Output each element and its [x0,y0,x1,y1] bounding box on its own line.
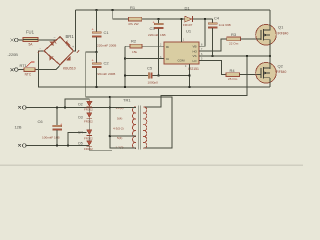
wire C1 chain [96,10,98,32]
pin stubs [199,45,206,47]
svg-text:BR1: BR1 [66,34,75,39]
wire Ct wire [125,58,159,60]
node dot C5 left [124,74,126,76]
capacitor C1 [92,28,117,48]
svg-text:VB: VB [193,45,197,49]
resistor R4 [226,68,257,81]
wire HO to R3 [206,39,227,51]
terminal AC live [11,38,24,42]
wire midpoint to primary [86,52,172,148]
transformer TR1 [113,98,147,150]
svg-text:220mkF 200B: 220mkF 200B [97,44,116,48]
node dot C5 com [188,74,190,76]
wire Rt-Ct link [124,46,126,87]
node dot C3 top [157,18,159,20]
capacitor C5 [125,66,189,85]
svg-text:D4: D4 [78,130,83,134]
node dot D4 link [67,144,69,146]
svg-text:~: ~ [54,36,56,40]
thermistor RT1 [20,62,36,77]
svg-text:220mkF 200B: 220mkF 200B [96,72,115,76]
svg-text:Q1: Q1 [278,25,284,30]
bridge rectifier BR1 [38,34,79,72]
terminal out minus [18,144,89,148]
svg-text:C1: C1 [104,30,110,35]
svg-text:VS: VS [193,54,197,58]
svg-text:FR107: FR107 [183,23,193,27]
wire bridge plus to rail [74,10,76,51]
node dot C4 VS [211,55,213,57]
svg-text:Q2: Q2 [278,64,284,69]
svg-text:C5: C5 [147,66,153,71]
wire chain bottom link [89,149,112,151]
svg-text:U1: U1 [186,29,192,34]
transistor Q1 [256,10,289,56]
wire top +rail [76,9,270,11]
wire fuse to bridge [38,37,60,40]
svg-text:1000p0: 1000p0 [148,81,159,85]
svg-text:R4: R4 [230,68,236,73]
svg-text:R1: R1 [130,5,136,10]
transistor Q2 [256,56,287,87]
capacitor C3 [148,19,166,75]
svg-text:47k 2W: 47k 2W [128,22,139,26]
diode D4 [78,130,93,141]
node dot VS Q [269,55,271,57]
wire VS row [206,55,271,57]
wire VB vertical [204,19,206,46]
svg-text:R3: R3 [231,32,237,37]
node dot C6 bottom [56,144,58,146]
secondary winding right [143,107,147,148]
resistor R3 [227,32,257,46]
svg-text:1-2(3): 1-2(3) [116,146,124,150]
svg-text:RT1: RT1 [20,63,27,68]
svg-text:Ct: Ct [166,57,169,61]
wire D4 left link [68,133,87,146]
svg-text:D1: D1 [185,6,191,11]
node dot rail C1 [95,9,97,11]
primary winding left [132,107,136,148]
svg-text:FR302: FR302 [84,119,93,123]
svg-text:220mkF 16B: 220mkF 16B [148,33,166,37]
wire D2 top link [65,99,89,107]
svg-text:C3: C3 [150,26,156,31]
wire secondary taps [110,97,136,148]
svg-text:FR302: FR302 [84,137,93,141]
terminal out plus [18,106,110,110]
node dot VB branch [204,18,206,20]
svg-text:25 Om: 25 Om [228,77,238,81]
svg-text:12B: 12B [15,125,22,130]
svg-text:IRF840: IRF840 [278,32,289,36]
wire C1 bottom to mid node [96,37,98,52]
svg-text:LO: LO [193,59,198,63]
node dot C2 bus [95,86,97,88]
IC U1 IR2151 [159,18,206,87]
svg-text:COM: COM [178,59,186,63]
node dot center tap [109,135,111,137]
wire VS to primary top [143,56,247,107]
capacitor C4 [208,16,231,57]
terminal AC neutral [11,68,25,72]
fuse FU1 [23,30,38,47]
wire VCC line [142,18,185,20]
diode D5 [78,141,93,151]
svg-text:D5: D5 [78,141,83,145]
capacitor C2 [92,52,116,87]
wire diode chain [88,99,90,150]
node dot C3 com [157,74,159,76]
svg-text:15k: 15k [132,50,137,54]
wire LO to R4 [206,61,227,75]
svg-text:~: ~ [49,68,51,72]
svg-text:FU1: FU1 [26,30,35,35]
node dot COM bus [188,86,190,88]
svg-text:NTC: NTC [25,73,32,77]
svg-text:Rt: Rt [166,45,169,49]
svg-text:TR1: TR1 [123,98,131,103]
svg-text:4-3(5-2): 4-3(5-2) [113,127,124,131]
node dot midpoint [95,51,97,53]
wire R1 feed [113,10,129,19]
node dot rail R1 [112,9,114,11]
svg-text:C2: C2 [104,61,110,66]
svg-text:D3: D3 [78,116,83,120]
svg-text:D2: D2 [78,103,83,107]
node dot midpoint tee [109,96,111,98]
svg-text:IRF840: IRF840 [276,70,287,74]
node dot VS primary [246,55,248,57]
diode D2 [78,101,93,111]
node dot C6 top [56,106,58,108]
wire NTC to bridge [35,65,60,69]
svg-text:-220B: -220B [8,52,19,57]
svg-text:HO: HO [193,49,198,53]
svg-text:22 Om: 22 Om [229,42,239,46]
svg-text:KBU510: KBU510 [63,66,76,70]
resistor R2 [125,39,159,54]
svg-text:+: + [72,45,74,49]
svg-text:C6: C6 [38,119,44,124]
wire D1 to VB and C4 [193,18,213,20]
diode D1 [183,6,193,27]
core [138,106,140,150]
svg-text:C4: C4 [214,16,220,21]
bottom edge shade [0,164,303,166]
node dot Ct link [124,57,126,59]
wire negative bus [39,51,271,87]
svg-text:FR302: FR302 [84,108,93,112]
svg-text:5(4): 5(4) [117,136,122,140]
capacitor C6 [38,108,64,146]
node dot D2 link [64,106,66,108]
svg-text:R2: R2 [131,39,137,44]
svg-text:FR302: FR302 [84,147,93,151]
svg-text:5(4): 5(4) [117,116,122,120]
resistor R1 [128,5,142,26]
node dot link bus [124,86,126,88]
node dot rect rail top [109,106,111,108]
svg-text:1mk 63B: 1mk 63B [219,23,231,27]
diode D3 [78,113,93,124]
